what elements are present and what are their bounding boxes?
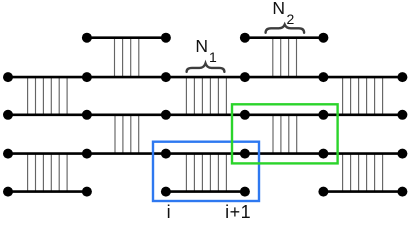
- brace over N1 rung group: [187, 63, 225, 72]
- brace over N2 rung group: [266, 25, 305, 33]
- label N1: [195, 38, 216, 64]
- monomer nodes on chain C: [3, 110, 407, 120]
- chain segment A1: [87, 36, 166, 39]
- bond rungs N1-type between chain D and chain E1, left: [28, 154, 68, 192]
- bond rungs N2-type between chain C and chain D, left: [115, 115, 139, 154]
- bond rungs N1 between chain B and chain C, middle: [186, 77, 226, 115]
- bond rungs N2-type between chain C and chain D, right (inside green box): [273, 115, 297, 154]
- label i: [160, 203, 178, 221]
- monomer nodes on chain E: [3, 187, 407, 197]
- bond rungs N2-type between chain A1 and chain B: [115, 38, 139, 77]
- chain segment E3: [323, 190, 402, 193]
- chain segment E1: [8, 190, 87, 193]
- chain C: [8, 114, 402, 117]
- green highlight box around N2 bond unit: [232, 104, 338, 163]
- monomer nodes on chain D: [3, 149, 407, 159]
- bond rungs N1-type between chain D and chain E2 (inside blue box): [186, 154, 226, 192]
- bond rungs N1-type between chain D and chain E3, right: [343, 154, 383, 192]
- monomer nodes on chain A: [82, 33, 329, 43]
- label i+1: [225, 203, 251, 221]
- chain segment E2: [166, 190, 245, 193]
- blue highlight box around N1 bond unit (sites i and i+1): [153, 142, 259, 201]
- bond rungs N2-type between chain A2 and chain B: [273, 38, 297, 77]
- chain D: [8, 152, 402, 155]
- chain segment A2: [245, 36, 324, 39]
- monomer nodes on chain B: [3, 72, 407, 82]
- label N2: [272, 0, 294, 26]
- bond rungs N1-type between chain B and chain C, left: [28, 77, 68, 115]
- chain B: [8, 76, 402, 79]
- bond rungs N1-type between chain B and chain C, right: [343, 77, 383, 115]
